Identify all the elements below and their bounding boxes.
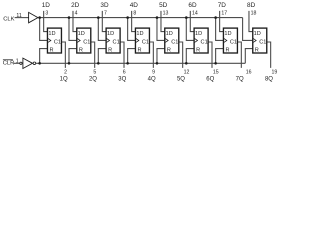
svg-text:R: R	[108, 47, 112, 53]
svg-text:4Q: 4Q	[148, 76, 156, 82]
svg-text:R: R	[137, 47, 141, 53]
svg-text:6D: 6D	[188, 2, 197, 9]
svg-text:1Q: 1Q	[60, 76, 68, 82]
svg-text:5Q: 5Q	[177, 76, 185, 82]
svg-text:16: 16	[246, 69, 252, 75]
svg-text:13: 13	[163, 11, 169, 17]
svg-text:R: R	[225, 47, 229, 53]
svg-text:12: 12	[184, 69, 190, 75]
svg-text:CLK: CLK	[3, 17, 14, 23]
svg-text:R: R	[255, 47, 259, 53]
svg-text:8: 8	[133, 11, 136, 17]
svg-text:3Q: 3Q	[118, 76, 126, 82]
svg-text:8Q: 8Q	[265, 76, 273, 82]
svg-text:4: 4	[75, 11, 78, 17]
svg-text:2: 2	[64, 69, 67, 75]
svg-text:4D: 4D	[130, 2, 139, 9]
svg-text:6: 6	[123, 69, 126, 75]
svg-text:C1: C1	[83, 40, 90, 46]
svg-text:1D: 1D	[166, 31, 173, 37]
svg-text:R: R	[79, 47, 83, 53]
svg-text:R: R	[167, 47, 171, 53]
svg-text:7: 7	[104, 11, 107, 17]
svg-text:2D: 2D	[71, 2, 80, 9]
svg-text:5: 5	[93, 69, 96, 75]
svg-text:19: 19	[272, 69, 278, 75]
svg-text:1D: 1D	[224, 31, 231, 37]
svg-text:3D: 3D	[100, 2, 109, 9]
svg-text:5D: 5D	[159, 2, 168, 9]
svg-text:14: 14	[192, 11, 198, 17]
svg-text:1D: 1D	[254, 31, 261, 37]
svg-text:C1: C1	[230, 40, 237, 46]
svg-text:6Q: 6Q	[206, 76, 214, 82]
svg-text:2Q: 2Q	[89, 76, 97, 82]
svg-text:CLR: CLR	[3, 61, 15, 67]
svg-text:18: 18	[251, 11, 257, 17]
svg-text:1D: 1D	[195, 31, 202, 37]
svg-text:C1: C1	[54, 40, 61, 46]
svg-text:1D: 1D	[48, 31, 55, 37]
svg-text:15: 15	[213, 69, 219, 75]
svg-text:C1: C1	[259, 40, 266, 46]
svg-text:C1: C1	[171, 40, 178, 46]
svg-text:1D: 1D	[107, 31, 114, 37]
svg-text:R: R	[50, 47, 54, 53]
svg-text:3: 3	[45, 11, 48, 17]
svg-text:C1: C1	[201, 40, 208, 46]
svg-text:C1: C1	[142, 40, 149, 46]
svg-text:7Q: 7Q	[236, 76, 244, 82]
svg-text:C1: C1	[113, 40, 120, 46]
svg-text:1D: 1D	[42, 2, 51, 9]
svg-text:8D: 8D	[247, 2, 256, 9]
svg-text:1D: 1D	[136, 31, 143, 37]
svg-text:17: 17	[221, 11, 227, 17]
svg-text:9: 9	[152, 69, 155, 75]
svg-text:7D: 7D	[218, 2, 227, 9]
svg-text:1D: 1D	[78, 31, 85, 37]
svg-text:R: R	[196, 47, 200, 53]
